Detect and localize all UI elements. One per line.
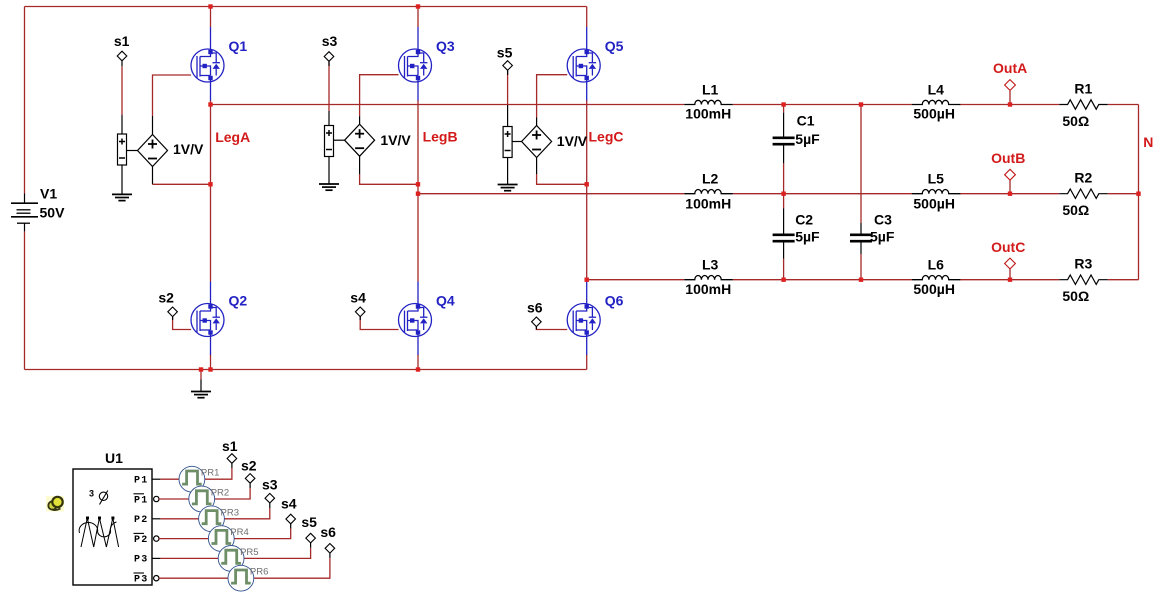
node dot LegA line1	[208, 102, 212, 106]
wire LegC rail	[586, 100, 588, 282]
wire Q5 drain stub	[586, 7, 588, 28]
svg-text:Q3: Q3	[436, 38, 455, 54]
pin P1bar bubble	[154, 496, 159, 501]
inductor L6	[912, 276, 961, 280]
phi symbol	[99, 491, 108, 505]
svg-text:s1: s1	[114, 33, 130, 49]
svg-text:C1: C1	[797, 112, 815, 128]
svg-text:V1: V1	[40, 186, 57, 202]
pin P2bar bubble	[154, 536, 159, 541]
node dot N line2	[1136, 192, 1140, 196]
wire sense C gnd pin	[507, 158, 509, 185]
svg-text:LegC: LegC	[589, 129, 624, 145]
node dot bottom bus Q2	[208, 367, 212, 371]
wire s1 term stub	[231, 463, 233, 468]
wire gate Q6 from s6	[536, 327, 567, 330]
svg-text:100mH: 100mH	[685, 281, 731, 297]
wire E2 sense to diamond	[334, 139, 345, 141]
ground sense A	[112, 194, 132, 200]
svg-text:LegA: LegA	[215, 129, 250, 145]
black stubs under bottom terminals	[232, 463, 330, 558]
wire gate Q4 from s4	[360, 317, 398, 330]
wire line phase B	[418, 193, 1139, 195]
svg-text:50Ω: 50Ω	[1062, 288, 1089, 304]
svg-text:C3: C3	[874, 212, 892, 228]
svg-text:s4: s4	[350, 290, 366, 306]
svg-text:s5: s5	[497, 45, 513, 61]
pin P1 stub	[152, 478, 160, 480]
wire E-source B top pin	[359, 116, 361, 125]
svg-text:P2: P2	[134, 535, 148, 546]
wire gate Q2 from s2	[173, 317, 191, 330]
svg-text:L4: L4	[928, 82, 945, 98]
wire LegA rail	[210, 100, 212, 282]
U1 box	[73, 469, 152, 585]
wire s3 to sense B	[328, 62, 330, 111]
wire PR2 to s2	[215, 488, 251, 499]
svg-text:500µH: 500µH	[913, 106, 955, 122]
svg-text:1V/V: 1V/V	[380, 132, 411, 148]
wire Q2 source stub	[210, 355, 212, 370]
wire Q1 drain stub	[210, 7, 212, 28]
svg-text:s3: s3	[262, 477, 278, 493]
resistor R1	[1059, 100, 1107, 109]
terminal s2	[168, 307, 178, 317]
svg-text:R2: R2	[1074, 170, 1092, 186]
MOSFET Q2	[191, 282, 224, 356]
svg-text:s4: s4	[281, 496, 297, 512]
node dot top bus Q3	[416, 4, 420, 8]
capacitor C1	[773, 138, 795, 144]
wire sense C top pin	[507, 105, 509, 127]
node dot C3 top	[859, 102, 863, 106]
terminal OutB	[1005, 169, 1016, 180]
wire line phase C	[587, 279, 1139, 281]
E-source E1 diamond	[138, 135, 168, 167]
annotation marker yellow ball	[46, 496, 64, 512]
terminal s3 bottom	[265, 493, 275, 503]
svg-text:R3: R3	[1074, 256, 1092, 272]
node dot OutB	[1008, 192, 1012, 196]
pin P2 stub	[152, 518, 160, 520]
wire PR3 to s3	[224, 508, 269, 519]
wire E1 sense to diamond	[127, 150, 138, 152]
wire Q6 source stub	[586, 355, 588, 370]
node dot LegB line2	[416, 192, 420, 196]
svg-text:C2: C2	[795, 212, 813, 228]
wire V1 bottom pin	[24, 223, 26, 231]
wire ground stub at bottom bus	[200, 370, 202, 380]
wire PR1 to s1	[205, 468, 232, 479]
svg-text:PR5: PR5	[240, 547, 258, 558]
wire P3 to PR5	[160, 557, 218, 559]
wire s6 term stub	[329, 553, 331, 558]
wire s1 to sense A	[121, 66, 123, 115]
svg-text:PR4: PR4	[230, 527, 248, 538]
wire OutA stub	[1009, 90, 1011, 104]
svg-text:Q6: Q6	[605, 293, 624, 309]
wire line phase A	[211, 104, 1139, 106]
inductor L3	[684, 276, 733, 280]
svg-text:L3: L3	[702, 257, 719, 273]
wire bottom bus 0V	[25, 369, 587, 371]
wire E-source B bottom pin	[359, 157, 361, 175]
pulse shaper PR6	[228, 565, 254, 591]
svg-text:L5: L5	[928, 171, 945, 187]
pulse shaper PR4	[208, 526, 234, 552]
svg-text:50V: 50V	[40, 205, 66, 221]
pin P3bar bubble	[154, 576, 159, 581]
svg-text:PR1: PR1	[201, 468, 219, 479]
svg-text:s2: s2	[158, 290, 174, 306]
svg-text:5µF: 5µF	[870, 229, 895, 245]
pulse shaper PR5	[218, 546, 244, 572]
svg-text:500µH: 500µH	[913, 196, 955, 212]
wire OutB stub	[1009, 180, 1011, 194]
wire C2 stubs	[783, 194, 785, 280]
svg-text:5µF: 5µF	[795, 131, 820, 147]
ground sense B	[319, 184, 339, 190]
wire s2 black stub	[172, 316, 174, 320]
node dot LegC line3	[585, 278, 589, 282]
svg-text:L2: L2	[702, 171, 719, 187]
wire PR6 to s6	[254, 558, 330, 578]
node dot bottom bus Q4	[416, 367, 420, 371]
svg-text:P1: P1	[134, 495, 148, 506]
battery V1	[11, 203, 38, 223]
svg-text:500µH: 500µH	[913, 281, 955, 297]
wire sense A gnd pin	[121, 165, 123, 194]
wire s6 black stub	[535, 326, 537, 329]
wire gate Q1	[153, 75, 192, 116]
node dot LegC return	[585, 182, 589, 186]
wire P3bar to PR6	[159, 577, 228, 579]
terminal s1 bottom	[227, 454, 237, 464]
capacitor C3	[850, 235, 872, 241]
wire s5 black stub	[507, 70, 509, 75]
inductor L1	[684, 100, 733, 104]
MOSFET Q5	[567, 27, 600, 101]
node dot LegB return	[416, 182, 420, 186]
wire V1 top pin	[24, 194, 26, 204]
wires U1 to PR	[159, 468, 330, 578]
svg-text:OutB: OutB	[991, 150, 1025, 166]
capacitor C3 pins	[860, 223, 862, 254]
ground sense C	[498, 185, 518, 191]
E-source E3 diamond	[522, 126, 552, 158]
wire N rail	[1138, 105, 1140, 280]
MOSFET Q3	[399, 27, 432, 101]
waveform icon triangle	[81, 518, 119, 547]
svg-text:100mH: 100mH	[685, 196, 731, 212]
MOSFET Q1	[191, 27, 224, 101]
svg-text:Q4: Q4	[436, 293, 455, 309]
svg-text:Q5: Q5	[605, 38, 624, 54]
svg-text:50Ω: 50Ω	[1062, 113, 1089, 129]
wire E-source B return to LegB	[360, 174, 418, 184]
wire s3 term stub	[269, 503, 271, 508]
svg-text:PR3: PR3	[221, 507, 239, 518]
terminal s5	[503, 61, 513, 71]
wire left rail upper (V1 plus)	[24, 7, 26, 194]
svg-text:U1: U1	[105, 450, 123, 466]
wire s4 term stub	[290, 524, 292, 529]
svg-text:L6: L6	[928, 257, 945, 273]
svg-text:L1: L1	[702, 82, 719, 98]
terminal s4	[355, 307, 365, 317]
terminal s4 bottom	[286, 514, 296, 524]
U1 pins	[152, 479, 160, 581]
node dot bottom bus gnd	[199, 367, 203, 371]
svg-text:5µF: 5µF	[795, 229, 820, 245]
terminal OutA	[1005, 80, 1016, 91]
svg-text:s6: s6	[320, 524, 336, 540]
wire P1bar to PR2	[159, 498, 189, 500]
svg-text:1V/V: 1V/V	[557, 133, 588, 149]
voltage sense E1 input	[118, 134, 127, 165]
terminal s6	[532, 317, 542, 327]
node dot C2 bottom	[781, 278, 785, 282]
svg-text:P3: P3	[134, 555, 148, 566]
svg-text:P3: P3	[134, 575, 148, 586]
svg-text:s5: s5	[301, 514, 317, 530]
wire PR5 to s5	[244, 548, 311, 559]
resistor R2	[1059, 189, 1107, 198]
wire E-source A bottom pin	[152, 166, 154, 184]
wire C1 stubs	[783, 105, 785, 194]
wire sense B gnd pin	[328, 157, 330, 185]
wire E-source A top pin	[152, 116, 154, 135]
svg-text:3: 3	[89, 489, 94, 499]
voltage sense E2 input	[325, 126, 334, 157]
wire P2 to PR3	[160, 518, 198, 520]
svg-text:PR2: PR2	[211, 488, 229, 499]
pulse shaper PR2	[189, 486, 215, 512]
wire P2bar to PR4	[159, 538, 208, 540]
terminal s2 bottom	[245, 474, 255, 484]
wire s5 to sense C	[507, 71, 509, 105]
wire P1 to PR1	[160, 478, 179, 480]
svg-text:OutC: OutC	[991, 239, 1025, 255]
E-source E2 diamond	[345, 124, 375, 156]
pulse shaper PR1	[179, 466, 205, 492]
wire OutC stub	[1009, 269, 1011, 280]
capacitor C1 pins	[783, 113, 785, 164]
wire sense A top pin	[121, 115, 123, 134]
wire C3 rail stubs	[860, 105, 862, 280]
waveform peak caps	[86, 517, 114, 520]
capacitor C2	[773, 235, 795, 241]
inductor L2	[684, 190, 733, 194]
wire gate Q5	[537, 75, 568, 118]
terminal s3	[324, 52, 334, 62]
svg-text:Q2: Q2	[229, 293, 248, 309]
wire s1 black stub	[121, 61, 123, 67]
svg-text:s1: s1	[222, 438, 238, 454]
inductor L4	[912, 100, 961, 104]
svg-text:P2: P2	[134, 515, 148, 526]
svg-text:s6: s6	[527, 300, 543, 316]
pin P3 stub	[152, 557, 160, 559]
wire s5 term stub	[310, 543, 312, 548]
terminal s5 bottom	[306, 533, 316, 543]
svg-text:N: N	[1143, 134, 1153, 150]
wire s4 black stub	[359, 316, 361, 320]
wire E3 sense to diamond	[512, 141, 522, 143]
svg-text:OutA: OutA	[993, 60, 1027, 76]
MAIN WIRES	[25, 7, 1139, 380]
wire Q3 drain stub	[417, 7, 419, 28]
black wire stubs	[25, 61, 537, 392]
ground bottom bus	[191, 392, 211, 398]
wire PR4 to s4	[234, 529, 291, 539]
resistor R3	[1059, 275, 1107, 284]
inductor L5	[912, 190, 961, 194]
wire Q4 source stub	[417, 355, 419, 370]
wire s2 term stub	[249, 483, 251, 488]
wire E-source C top pin	[536, 118, 538, 127]
svg-text:R1: R1	[1074, 81, 1092, 97]
terminal s6 bottom	[325, 544, 335, 554]
wire gnd stub bottom bus	[200, 380, 202, 392]
wire LegB rail	[417, 100, 419, 282]
svg-text:s3: s3	[322, 33, 338, 49]
svg-text:1V/V: 1V/V	[173, 141, 204, 157]
node dot OutA	[807, 101, 809, 103]
svg-text:s2: s2	[241, 458, 257, 474]
pulse shaper PR3	[199, 506, 225, 532]
capacitor C2 pins	[783, 209, 785, 259]
wire sense B top pin	[328, 111, 330, 126]
wire top bus V+	[25, 6, 587, 8]
svg-text:P1: P1	[134, 476, 148, 487]
svg-text:PR6: PR6	[250, 567, 268, 578]
node dot top bus Q1	[208, 4, 212, 8]
svg-text:Q1: Q1	[229, 38, 248, 54]
wire left rail lower (V1 minus)	[24, 231, 26, 369]
wire E-source A return to LegA	[153, 183, 211, 185]
MOSFET Q6	[567, 282, 600, 356]
svg-text:LegB: LegB	[423, 129, 458, 145]
wire gate Q3	[360, 75, 399, 117]
node dot C3 bottom	[859, 278, 863, 282]
svg-text:50Ω: 50Ω	[1062, 202, 1089, 218]
node dot OutC	[1008, 278, 1012, 282]
svg-text:100mH: 100mH	[685, 106, 731, 122]
node dot LegA return	[208, 182, 212, 186]
node dot C1 bottom C2 top	[781, 192, 785, 196]
waveform icon sine	[79, 522, 116, 537]
MOSFET Q4	[399, 282, 432, 356]
wire s3 black stub	[328, 61, 330, 66]
node dot C1 top	[781, 102, 785, 106]
terminal OutC	[1005, 258, 1016, 269]
wire E-source C bottom pin	[536, 158, 538, 175]
wire E-source C return to LegC	[537, 174, 587, 184]
terminal s1	[117, 51, 127, 61]
voltage sense E3 input	[503, 127, 512, 158]
